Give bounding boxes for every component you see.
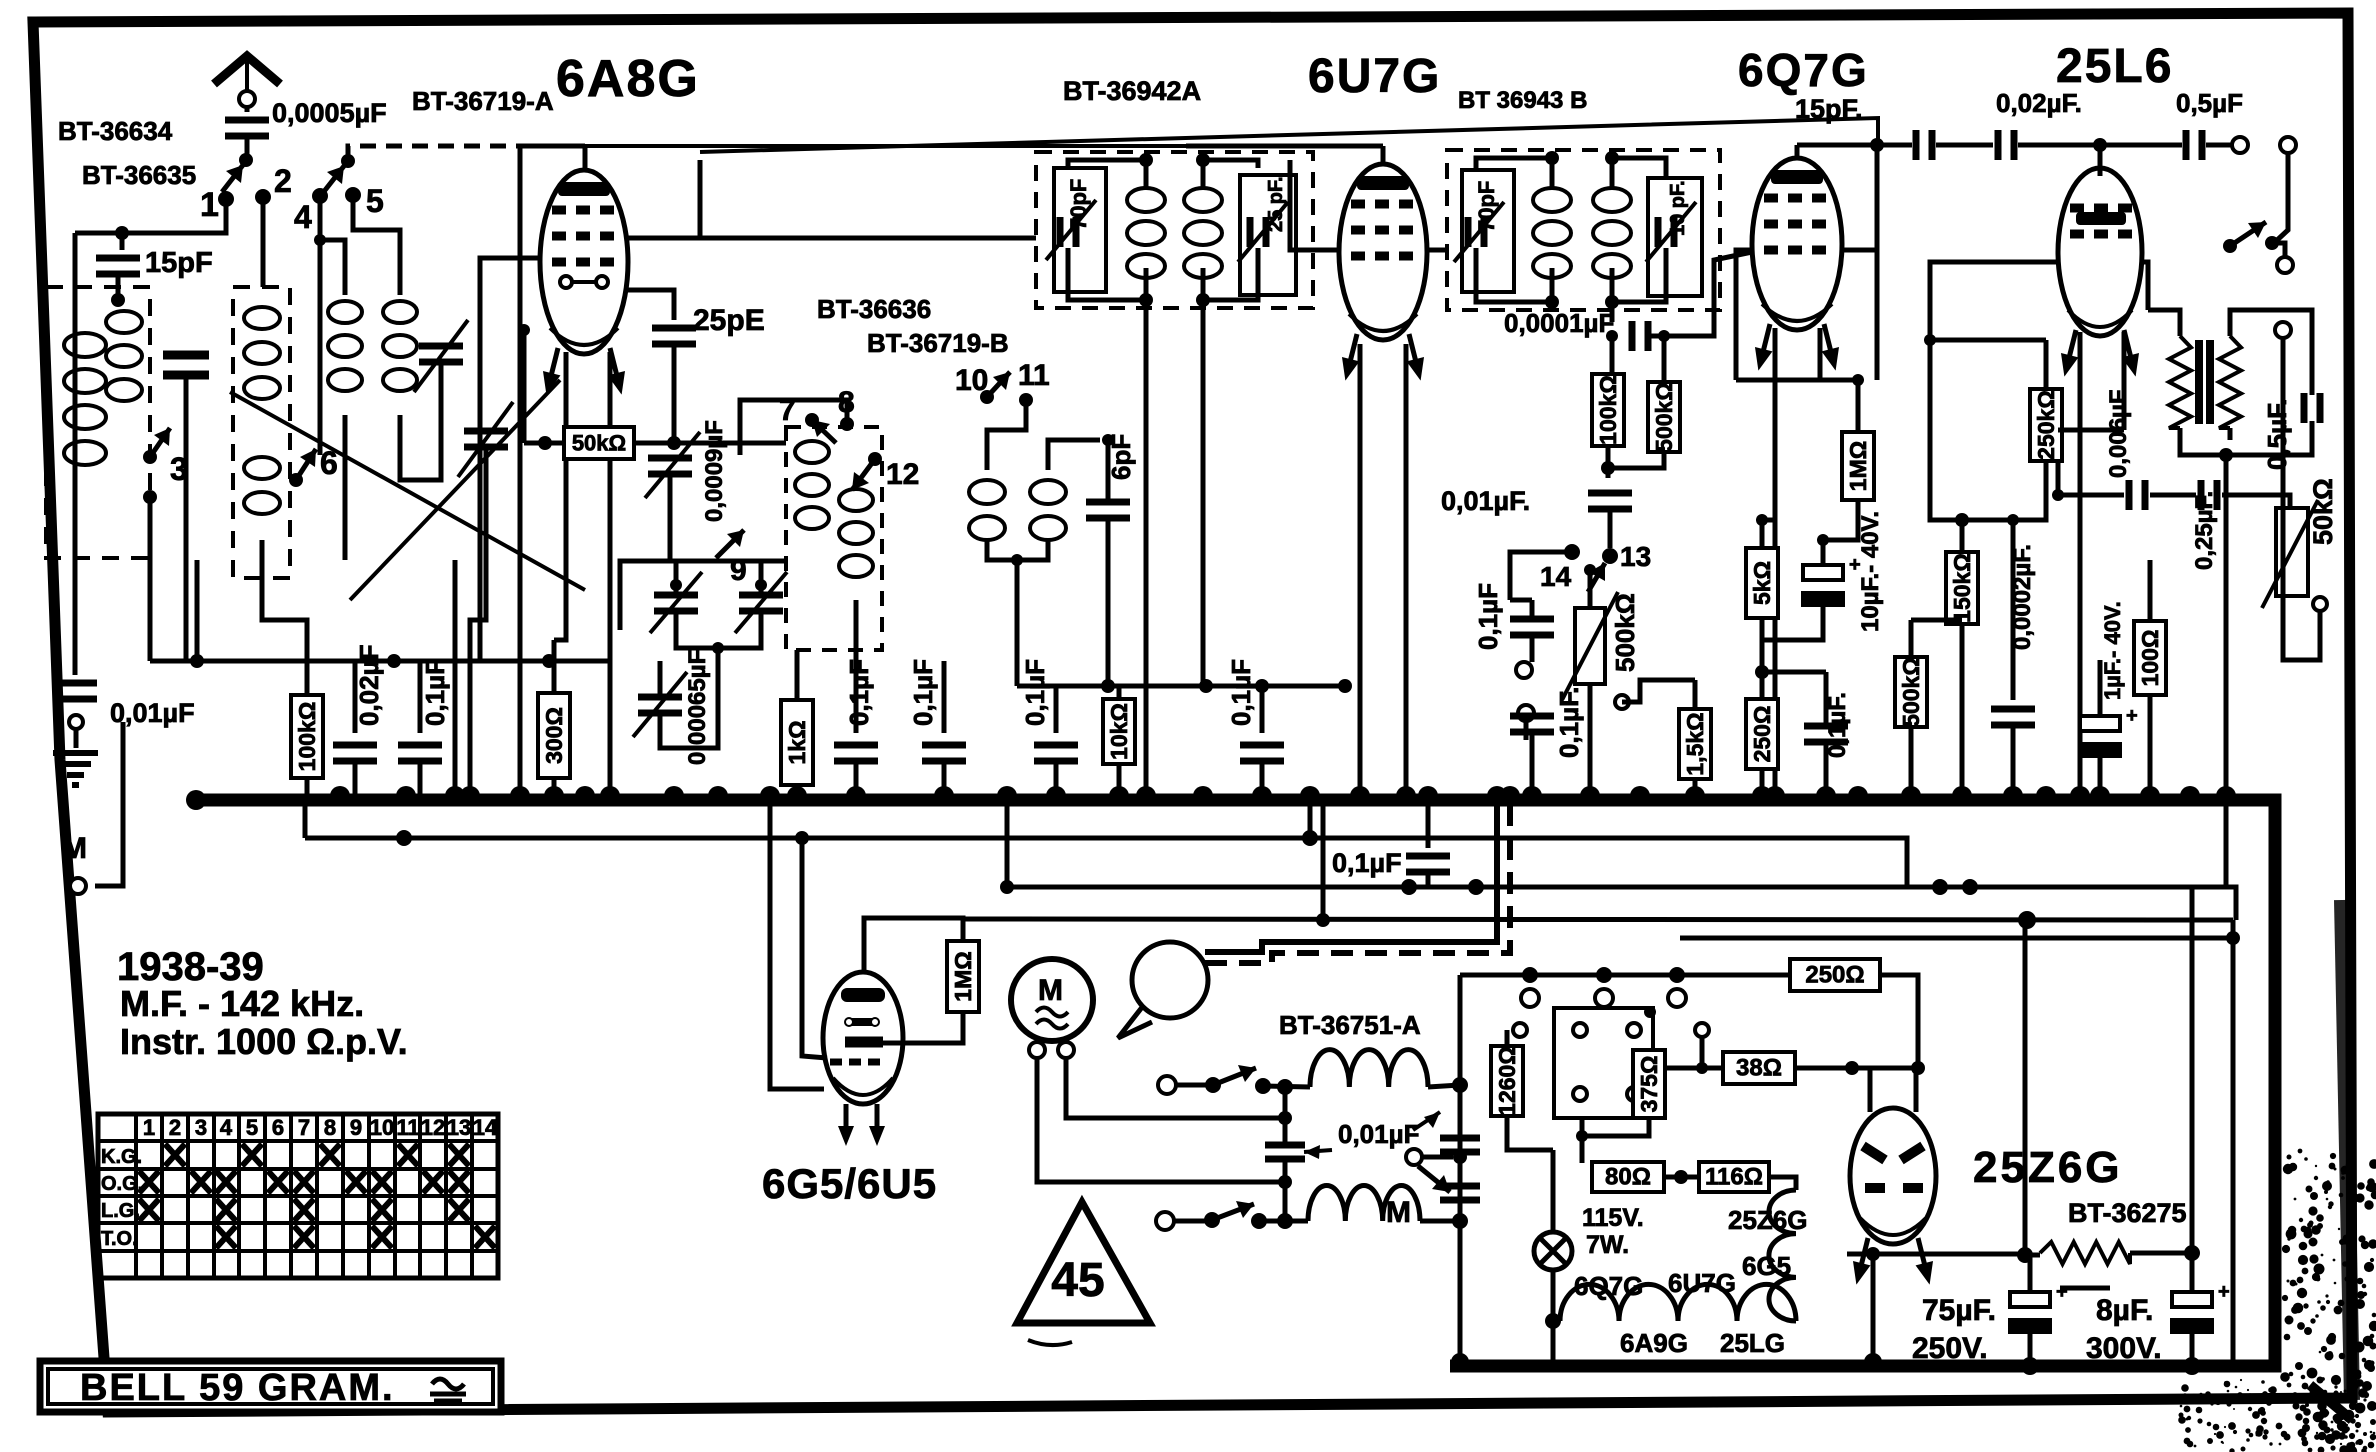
wire long vertical 455 bbox=[453, 560, 458, 797]
svg-text:+: + bbox=[2218, 1281, 2230, 1303]
output terminal 1 bbox=[2232, 137, 2248, 153]
svg-text:0,1µF: 0,1µF bbox=[908, 659, 938, 726]
junction dot bbox=[1011, 554, 1023, 566]
junction dot bbox=[1817, 534, 1829, 546]
wire 00065 top bbox=[658, 661, 663, 697]
terminal bbox=[1573, 1087, 1587, 1101]
motor terminal 2 bbox=[1058, 1042, 1074, 1058]
capacitor 15pF bbox=[96, 258, 140, 274]
wire diode load bbox=[1736, 378, 1858, 383]
node below 3 bbox=[143, 490, 157, 504]
wire 6pF down bbox=[1106, 518, 1111, 686]
padder capacitor bbox=[163, 355, 209, 375]
bus junction bump bbox=[1630, 786, 1650, 796]
svg-text:0,0009µF: 0,0009µF bbox=[701, 420, 728, 522]
svg-text:6G5: 6G5 bbox=[1742, 1251, 1791, 1281]
wire 150k bottom bbox=[1960, 624, 1965, 797]
resistor 100k bbox=[291, 695, 323, 778]
capacitor 0,5uF bbox=[2186, 130, 2202, 160]
wire bus tap bbox=[303, 800, 308, 838]
wire 5k to 250 bbox=[1760, 618, 1765, 699]
svg-text:1,5kΩ: 1,5kΩ bbox=[1682, 712, 1708, 775]
wire bbox=[1205, 806, 1510, 963]
coupling coil A bbox=[969, 480, 1005, 540]
wire bbox=[1460, 973, 1790, 978]
bus junction bump bbox=[330, 786, 350, 796]
wire 6G5 top to 1M bbox=[864, 918, 963, 972]
junction dot bbox=[1302, 830, 1318, 846]
bus junction bump bbox=[2180, 786, 2200, 796]
svg-text:5: 5 bbox=[366, 183, 384, 219]
node LB2 left bbox=[1000, 880, 1014, 894]
motor terminal 1 bbox=[1029, 1042, 1045, 1058]
capacitor 0,5uF right bbox=[2304, 393, 2320, 423]
wire to 15pF bbox=[120, 233, 125, 250]
wire to 0,1uF a bbox=[418, 661, 423, 733]
svg-text:0,0001µF: 0,0001µF bbox=[1504, 308, 1614, 338]
contact 1 bbox=[218, 191, 234, 207]
terminal bbox=[1156, 1212, 1174, 1230]
wire bbox=[2025, 1253, 2040, 1258]
contact 4 bbox=[312, 188, 328, 204]
tone terminal 1 bbox=[2277, 257, 2293, 273]
svg-text:100kΩ: 100kΩ bbox=[294, 702, 320, 772]
junction dot bbox=[1453, 1150, 1467, 1164]
tuning coil winding A bbox=[244, 307, 280, 399]
antenna coil winding A bbox=[64, 333, 106, 465]
wire right drop bbox=[2231, 920, 2236, 1366]
svg-text:M: M bbox=[1386, 1196, 1411, 1229]
wire OT prim bottom bbox=[2180, 428, 2226, 455]
wire bbox=[2190, 1253, 2195, 1292]
bus junction bump bbox=[1901, 786, 1921, 796]
right border smear bbox=[2342, 900, 2352, 1400]
bus junction bump bbox=[1952, 786, 1972, 796]
wire OT to plate bbox=[2142, 262, 2148, 310]
junction dot bbox=[1658, 330, 1670, 342]
junction dot bbox=[2184, 1245, 2200, 1261]
trimmer arrow IF1a bbox=[1046, 200, 1096, 260]
resistor 10k bbox=[1103, 699, 1135, 764]
variable cap A bbox=[654, 595, 698, 611]
wire bus to 6G5 lower bbox=[770, 806, 824, 1089]
wire lamp bottom bbox=[1551, 1269, 1556, 1321]
svg-text:25LG: 25LG bbox=[1720, 1328, 1785, 1358]
wire choke1 to box bbox=[1428, 1085, 1460, 1087]
capacitor 0,1uF a bbox=[398, 745, 442, 761]
junction dot bbox=[1564, 544, 1580, 560]
IF/antenna transformer can BT-36634 (dashed) bbox=[46, 287, 150, 558]
svg-text:0,006µF: 0,006µF bbox=[2105, 389, 2132, 478]
wire 1582 vertical bbox=[1580, 1118, 1585, 1163]
bus junction bump bbox=[2140, 786, 2160, 796]
svg-text:6G5/6U5: 6G5/6U5 bbox=[762, 1160, 937, 1207]
capacitor bbox=[1265, 1145, 1305, 1159]
svg-text:250V.: 250V. bbox=[1912, 1332, 1988, 1365]
wire IF1 top b bbox=[1203, 160, 1258, 188]
capacitor 0,1uF c bbox=[922, 745, 966, 761]
switch arm bbox=[1418, 1166, 1450, 1192]
junction dot bbox=[2021, 1357, 2039, 1375]
tube 6G5/6U5 bbox=[823, 972, 903, 1104]
svg-text:1MΩ: 1MΩ bbox=[1845, 441, 1871, 491]
junction dot bbox=[1696, 1062, 1708, 1074]
bus junction bump bbox=[708, 786, 728, 796]
pilot lamp 115V 7W bbox=[1534, 1232, 1572, 1270]
6G5 target bars bbox=[841, 988, 885, 1002]
node coil bbox=[111, 293, 125, 307]
wire 6U7G cathode down bbox=[1358, 344, 1363, 797]
wire tuning coil bottom down bbox=[262, 540, 307, 695]
resistor 300 ohm bbox=[538, 693, 570, 778]
svg-text:250Ω: 250Ω bbox=[1805, 962, 1864, 989]
junction dot bbox=[1278, 1175, 1292, 1189]
svg-text:2: 2 bbox=[169, 1115, 181, 1140]
switch pivot dot bbox=[239, 153, 253, 167]
svg-text:80Ω: 80Ω bbox=[1605, 1164, 1651, 1191]
trimmer 70pF box bbox=[1054, 168, 1106, 292]
capacitor 0,0001uF bbox=[1632, 321, 1648, 351]
wave-band table bbox=[98, 1114, 498, 1278]
bus junction bump bbox=[1350, 786, 1370, 796]
6G5 heater arrows bbox=[846, 1104, 877, 1132]
svg-text:11: 11 bbox=[396, 1115, 419, 1140]
junction dot bbox=[2017, 1247, 2033, 1263]
svg-text:2: 2 bbox=[274, 163, 292, 199]
wire 25pF down bbox=[672, 344, 677, 443]
wire OT sec top bbox=[2230, 310, 2312, 395]
wire coilA to 11 bbox=[987, 400, 1026, 470]
wire bbox=[1174, 1219, 1205, 1224]
choke coil 1 bbox=[1310, 1050, 1428, 1087]
svg-text:3: 3 bbox=[195, 1115, 207, 1140]
svg-text:6U7G: 6U7G bbox=[1308, 50, 1441, 103]
wire pot top bbox=[1588, 570, 1593, 608]
capacitor 0,02uF bbox=[333, 745, 377, 761]
svg-text:O.G.: O.G. bbox=[101, 1173, 143, 1195]
svg-text:7W.: 7W. bbox=[1586, 1231, 1629, 1259]
junction dot bbox=[1278, 1111, 1292, 1125]
wire bbox=[1017, 684, 1345, 689]
bus junction bump bbox=[1487, 786, 1507, 796]
wire bbox=[2028, 1334, 2033, 1366]
IF1 secondary winding bbox=[1184, 188, 1222, 278]
switch arm bbox=[1212, 1201, 1254, 1220]
svg-text:BT-36635: BT-36635 bbox=[82, 160, 196, 190]
svg-text:250kΩ: 250kΩ bbox=[2033, 390, 2059, 460]
wire IF1 top a bbox=[1068, 160, 1146, 188]
wire 25L6 screen down bbox=[2122, 332, 2127, 430]
svg-text:6Q7G: 6Q7G bbox=[1738, 44, 1869, 96]
wire 6Q7G heater down bbox=[1818, 328, 1823, 380]
tube 6U7G heater arrows bbox=[1337, 332, 1366, 383]
svg-text:0,02µF: 0,02µF bbox=[354, 645, 384, 726]
svg-text:11: 11 bbox=[1018, 359, 1050, 392]
6A8G inner diode dots bbox=[566, 280, 602, 284]
trimmer cap IF1 secondary bbox=[1250, 217, 1266, 247]
wire IF1 bottom a bbox=[1068, 248, 1146, 300]
contact 2 bbox=[255, 189, 271, 205]
terminal bbox=[1627, 1023, 1641, 1037]
tuning coil winding B bbox=[244, 457, 280, 514]
bus junction bump bbox=[460, 786, 480, 796]
wire 0,5 right down bbox=[2226, 421, 2312, 455]
svg-text:0,01µF: 0,01µF bbox=[1338, 1119, 1419, 1149]
bus left end dot bbox=[186, 790, 206, 810]
svg-text:T.O.: T.O. bbox=[101, 1228, 138, 1250]
bus junction bump bbox=[2003, 786, 2023, 796]
wire 6Q7G topcap bbox=[1795, 145, 1800, 158]
tube 25Z6G bbox=[1850, 1108, 1936, 1244]
junction dot bbox=[1755, 665, 1769, 679]
resistor 80 ohm bbox=[1592, 1162, 1664, 1192]
wire osc can to 1k bbox=[795, 650, 800, 700]
wire coils bottom bbox=[987, 540, 1048, 560]
svg-text:BT-36634: BT-36634 bbox=[58, 116, 173, 146]
wire 10k to bus bbox=[1117, 764, 1122, 797]
svg-text:0,02µF.: 0,02µF. bbox=[1996, 88, 2082, 118]
junction dot bbox=[1584, 564, 1596, 576]
bus junction bump bbox=[664, 786, 684, 796]
wire 250 bottom bbox=[1760, 769, 1765, 797]
svg-text:K.G.: K.G. bbox=[101, 1146, 142, 1168]
osc winding B bbox=[839, 489, 873, 577]
junction dot bbox=[2265, 236, 2279, 250]
wire cap to switch bbox=[245, 136, 250, 156]
junction dot bbox=[1196, 153, 1210, 167]
wire to 25L6 bbox=[2018, 143, 2100, 148]
junction dot bbox=[1102, 434, 1114, 446]
trimmer cap IF2 primary bbox=[1468, 217, 1484, 247]
wire bbox=[1422, 1155, 1453, 1160]
junction dot bbox=[868, 452, 882, 466]
tube 6A8G bbox=[540, 170, 628, 354]
svg-text:4: 4 bbox=[294, 199, 312, 235]
wire 500k bottom bbox=[1608, 452, 1664, 468]
wire 250k bottom bbox=[1962, 461, 2046, 520]
resistor zigzag bbox=[2219, 336, 2241, 428]
transformer tap sub-box bbox=[1554, 1008, 1653, 1118]
bus junction bump bbox=[510, 786, 530, 796]
junction dot bbox=[1139, 153, 1153, 167]
wire bbox=[1510, 600, 1532, 619]
wire to bus b bbox=[854, 761, 859, 797]
wire padder down bbox=[184, 375, 189, 661]
junction dot bbox=[1522, 967, 1538, 983]
junction dot bbox=[1911, 1061, 1925, 1075]
switch arm bbox=[987, 372, 1010, 397]
wire to 0,1uF c bbox=[942, 661, 947, 733]
resistor 116 ohm bbox=[1699, 1162, 1769, 1192]
arrow 0,00065 bbox=[633, 672, 687, 737]
capacitor 0,1uF h bbox=[1804, 726, 1848, 742]
svg-text:7: 7 bbox=[298, 1115, 310, 1140]
bus junction bump bbox=[1046, 786, 1066, 796]
wire pickup 2 down bbox=[1524, 721, 1529, 740]
pot 50k arrow bbox=[2262, 500, 2318, 608]
svg-text:10: 10 bbox=[955, 364, 988, 397]
bus junction bump bbox=[544, 786, 564, 796]
25L6 inner plate bar bbox=[2076, 212, 2126, 225]
wire 25L6 grid top bbox=[2098, 145, 2103, 176]
node 197,661 bbox=[190, 654, 204, 668]
wire bbox=[2058, 428, 2124, 433]
svg-text:10: 10 bbox=[370, 1115, 394, 1140]
junction dot bbox=[1669, 967, 1685, 983]
speaker bbox=[1132, 942, 1208, 1018]
wire between caps bbox=[620, 561, 786, 585]
bus junction bump bbox=[1193, 786, 1213, 796]
bus junction bump bbox=[1685, 786, 1705, 796]
resistor 250 ohm bbox=[1746, 699, 1778, 769]
rail dot power left bbox=[1451, 1353, 1469, 1371]
trimmer arrow IF2a bbox=[1454, 202, 1504, 262]
svg-text:25Z6G: 25Z6G bbox=[1728, 1205, 1808, 1235]
svg-text:Instr. 1000 Ω.p.V.: Instr. 1000 Ω.p.V. bbox=[120, 1021, 408, 1062]
junction dot bbox=[1674, 1170, 1688, 1184]
svg-text:500kΩ: 500kΩ bbox=[1610, 593, 1640, 672]
svg-text:6A8G: 6A8G bbox=[556, 50, 700, 108]
tube 6A8G heater arrows bbox=[538, 346, 567, 397]
wire contact5 down bbox=[353, 195, 400, 295]
svg-text:10 pF.: 10 pF. bbox=[1667, 180, 1689, 236]
svg-text:6Q7G: 6Q7G bbox=[1574, 1271, 1643, 1301]
wire 100 top bbox=[2148, 560, 2153, 621]
antenna coil winding B bbox=[106, 311, 142, 401]
wire 50k right bbox=[634, 441, 674, 446]
svg-text:0,01µF.: 0,01µF. bbox=[1441, 486, 1530, 516]
bus junction bump bbox=[1816, 786, 1836, 796]
junction dot bbox=[1101, 679, 1115, 693]
svg-text:14: 14 bbox=[473, 1115, 498, 1140]
wire 6Q7G top to 15pF bbox=[1797, 143, 1912, 148]
wire elec top bbox=[1821, 540, 1826, 565]
wire 15pF to 0,02 bbox=[1936, 143, 1993, 148]
wire 1,5k bottom bbox=[1693, 779, 1698, 797]
wire mid cap down bbox=[1283, 1160, 1288, 1221]
resistor 1M b bbox=[1842, 432, 1874, 500]
junction dot bbox=[1756, 514, 1768, 526]
wire IF1 sec down bbox=[1201, 300, 1206, 686]
wire bbox=[1505, 1030, 1510, 1046]
wire from 25L6 screen bbox=[2056, 430, 2061, 495]
junction dot bbox=[2183, 1357, 2201, 1375]
electrolytic 10uF 40V bbox=[1801, 554, 1861, 607]
wire OT sec bottom bbox=[2228, 428, 2233, 440]
wire 00065 bottom bbox=[660, 680, 718, 748]
arrow to mid cap bbox=[1304, 1150, 1332, 1152]
pickup terminal 2 bbox=[1518, 705, 1534, 721]
svg-text:1µF.- 40V.: 1µF.- 40V. bbox=[2100, 601, 2125, 700]
junction dot bbox=[1596, 967, 1612, 983]
svg-text:13: 13 bbox=[447, 1115, 471, 1140]
IF2 secondary winding bbox=[1593, 188, 1631, 278]
arrow capA bbox=[650, 572, 702, 633]
wire bbox=[1664, 1175, 1699, 1180]
wire bbox=[73, 233, 78, 675]
svg-text:L.G.: L.G. bbox=[101, 1200, 140, 1222]
wire 10k top bbox=[1117, 686, 1122, 699]
wire contact2 down bbox=[261, 197, 266, 287]
resistor 150k bbox=[1946, 552, 1978, 624]
wire cap i bottom bbox=[1426, 872, 1431, 887]
wire bbox=[1176, 1083, 1206, 1088]
wire 250b to rectifier bbox=[1880, 975, 1918, 1068]
junction dot bbox=[1605, 295, 1619, 309]
junction dot bbox=[1924, 334, 1936, 346]
svg-text:0,5µF.: 0,5µF. bbox=[2262, 399, 2292, 470]
tube 6U7G bbox=[1339, 164, 1427, 340]
node 50k left bbox=[538, 436, 552, 450]
wire IF2 bottom a bbox=[1476, 248, 1552, 302]
wire 8 to trimmer bbox=[740, 400, 847, 455]
tube 25Z6G heater arrows bbox=[1848, 1236, 1877, 1287]
svg-text:1MΩ: 1MΩ bbox=[950, 951, 976, 1001]
junction dot bbox=[1955, 513, 1969, 527]
wire to 0,5uF bbox=[2100, 143, 2182, 148]
wire bbox=[1510, 598, 1532, 603]
wire bbox=[1762, 607, 1823, 640]
capacitor 0,1uF b bbox=[834, 745, 878, 761]
wire top link left bbox=[585, 144, 1186, 148]
trimmer 0,0009uF bbox=[648, 458, 692, 474]
bus junction bump bbox=[1522, 786, 1542, 796]
junction dot bbox=[289, 473, 303, 487]
wire bbox=[1263, 1086, 1310, 1087]
svg-text:BELL 59 GRAM.: BELL 59 GRAM. bbox=[80, 1367, 395, 1409]
svg-text:BT-36719-B: BT-36719-B bbox=[867, 328, 1009, 358]
wire terminal down bbox=[2274, 153, 2288, 243]
trimmer arrow IF2b bbox=[1646, 202, 1696, 262]
bus junction bump bbox=[1300, 786, 1320, 796]
svg-text:0,1µF: 0,1µF bbox=[1226, 659, 1256, 726]
wire to ring 3 bbox=[2272, 243, 2285, 257]
wire 500kc bottom bbox=[1909, 727, 1914, 797]
wire from contact 3 down bbox=[148, 497, 153, 661]
bus junction bump bbox=[575, 786, 595, 796]
node on LB1 bbox=[795, 831, 809, 845]
wire 6Q7G cathode down bbox=[1773, 328, 1778, 797]
bus junction bump bbox=[997, 786, 1017, 796]
ground bus (thick) bbox=[196, 800, 2275, 1366]
IF transformer 2 can BT 36943 (dashed) bbox=[1447, 150, 1720, 310]
junction dot bbox=[1452, 1213, 1468, 1229]
svg-text:45: 45 bbox=[1051, 1254, 1104, 1307]
junction dot bbox=[670, 579, 682, 591]
tube 6Q7G heater arrows bbox=[1750, 322, 1779, 373]
switch arm bbox=[1213, 1065, 1256, 1085]
junction dot bbox=[1852, 374, 1864, 386]
svg-text:0,1µF: 0,1µF bbox=[1020, 659, 1050, 726]
bus junction bump bbox=[1418, 786, 1438, 796]
trimmer capacitor bbox=[419, 346, 463, 362]
wire to 13 bbox=[1608, 509, 1613, 548]
electrolytic capacitor bbox=[2170, 1281, 2230, 1334]
wire 116 to heater riser bbox=[1769, 1177, 1796, 1190]
wire 375 bottom bbox=[1582, 1118, 1649, 1136]
output terminal 2 bbox=[2280, 137, 2296, 153]
junction dot bbox=[1205, 1077, 1221, 1093]
svg-text:12: 12 bbox=[886, 458, 919, 491]
junction dot bbox=[755, 579, 767, 591]
wire bbox=[1930, 338, 2046, 343]
wire tone down bbox=[2281, 338, 2286, 360]
bus junction bump bbox=[1252, 786, 1272, 796]
bus junction bump bbox=[2216, 786, 2236, 796]
junction dot bbox=[1962, 879, 1978, 895]
scan noise bottom right corner bbox=[2178, 1149, 2376, 1452]
junction dot bbox=[2052, 489, 2064, 501]
